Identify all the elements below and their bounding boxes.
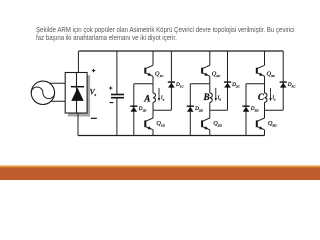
wire node1-1 horizontal [134, 83, 153, 85]
wire leg3 node1 rail [264, 76, 266, 84]
svg-text:C: C [258, 92, 265, 102]
wire capacitor top lead [116, 51, 118, 94]
diode D2D [187, 106, 194, 112]
wire node2-3 horizontal [265, 109, 284, 111]
rectifier box [65, 73, 87, 114]
svg-text:D3C: D3C [287, 82, 296, 88]
wire leg3 coil top [264, 84, 266, 93]
wire leg1 coil bottom [152, 102, 154, 110]
transistor Q2C [202, 65, 210, 76]
svg-text:Q1D: Q1D [156, 120, 165, 127]
svg-text:ia: ia [161, 95, 165, 101]
wire leg2 rail top [209, 51, 211, 65]
inductor phase B [210, 93, 212, 103]
minus sign (capacitor) [110, 102, 114, 104]
wire bottom bus (-) [78, 135, 265, 137]
wire D2D branch [189, 84, 191, 136]
svg-text:ib: ib [218, 95, 222, 101]
wire AC source bottom lead [45, 100, 65, 102]
transistor Q1C [145, 65, 153, 76]
diode D1D [130, 106, 137, 112]
svg-text:A: A [143, 93, 150, 103]
wire leg1 node1 rail [152, 76, 154, 84]
wire D3D branch [245, 84, 247, 136]
plus sign (Vs) [92, 69, 95, 72]
wire node2-2 horizontal [210, 109, 228, 111]
wire D2C branch [227, 51, 229, 110]
inductor phase A [153, 93, 155, 103]
wire leg1 coil top [152, 84, 154, 93]
transistor Q1D [145, 118, 153, 130]
wire D3C branch [282, 51, 284, 110]
wire leg2 node2 rail [209, 110, 211, 118]
diode D3D [242, 106, 249, 112]
transistor Q3C [257, 65, 265, 76]
svg-text:Q3C: Q3C [267, 71, 276, 78]
svg-text:B: B [203, 92, 210, 102]
wire top bus (+) [79, 50, 283, 52]
svg-text:Q2D: Q2D [213, 120, 222, 127]
wire rectifier top stub [77, 51, 79, 73]
wire capacitor bottom lead [116, 99, 118, 136]
diode D3C [280, 82, 287, 88]
wire D1C branch [170, 51, 172, 110]
wire node2-1 horizontal [153, 109, 171, 111]
inductor phase C [265, 93, 267, 103]
wire leg2 coil bottom [209, 102, 211, 110]
wire leg2 rail bottom [209, 130, 211, 136]
wire leg3 node2 rail [264, 110, 266, 118]
wire leg3 rail bottom [264, 130, 266, 136]
wire AC source top lead [45, 82, 65, 84]
svg-text:Q2C: Q2C [212, 71, 221, 78]
current arrow i_c [269, 88, 271, 101]
plus sign (capacitor) [109, 86, 112, 89]
wire leg1 rail bottom [152, 130, 154, 136]
wire node1-2 horizontal [190, 83, 210, 85]
current arrow i_b [215, 88, 217, 101]
current arrow i_a [158, 88, 160, 101]
AC source V_in [31, 81, 54, 104]
transistor Q3D [257, 118, 265, 130]
wire leg3 rail top [264, 51, 266, 65]
capacitor C (DC link) [111, 95, 124, 98]
svg-text:D1D: D1D [138, 106, 147, 112]
wire node1-3 horizontal [246, 83, 265, 85]
svg-text:Q3D: Q3D [268, 120, 277, 127]
rectifier box shadow [68, 75, 90, 116]
svg-text:Vs: Vs [90, 88, 97, 97]
svg-text:D3D: D3D [250, 106, 259, 112]
minus sign (Vs) [91, 117, 97, 119]
diode D2C [224, 82, 231, 88]
wire leg2 coil top [209, 84, 211, 93]
orange footer bar [0, 165, 320, 180]
svg-text:ic: ic [273, 95, 277, 101]
svg-text:D2D: D2D [194, 106, 203, 112]
svg-text:D1C: D1C [175, 82, 184, 88]
wire rectifier bottom stub [77, 113, 79, 136]
wire D1D branch [133, 84, 135, 136]
svg-text:Q1C: Q1C [155, 71, 164, 78]
wire leg2 node1 rail [209, 76, 211, 84]
wire leg3 coil bottom [264, 102, 266, 110]
transistor Q2D [202, 118, 210, 130]
rectifier diode [71, 73, 84, 113]
wire leg1 node2 rail [152, 110, 154, 118]
diode D1C [168, 82, 175, 88]
wire leg1 rail top [152, 51, 154, 65]
svg-text:D2C: D2C [231, 82, 240, 88]
